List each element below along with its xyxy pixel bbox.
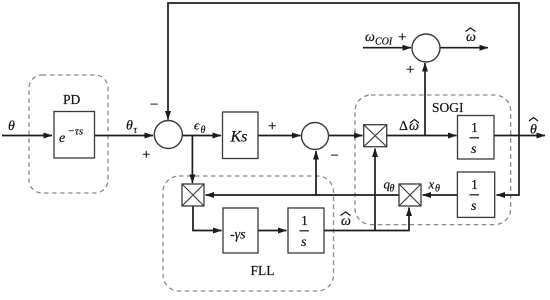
svg-text:-γs: -γs (230, 228, 246, 243)
svg-text:θ: θ (201, 125, 206, 136)
svg-text:COI: COI (375, 37, 393, 48)
svg-text:τ: τ (134, 125, 138, 136)
svg-text:PD: PD (63, 92, 81, 107)
svg-text:θ: θ (8, 119, 15, 134)
svg-text:s: s (471, 142, 477, 157)
svg-text:x: x (428, 177, 435, 192)
svg-text:−: − (150, 97, 158, 113)
svg-text:ω: ω (365, 30, 375, 45)
svg-text:−: − (331, 148, 339, 164)
svg-text:1: 1 (471, 178, 478, 193)
svg-text:FLL: FLL (251, 263, 275, 278)
svg-text:e: e (59, 131, 65, 146)
svg-text:+: + (142, 147, 150, 163)
svg-text:s: s (471, 199, 477, 214)
svg-text:Ks: Ks (230, 129, 248, 146)
svg-text:ω: ω (341, 214, 351, 229)
svg-text:−τs: −τs (68, 126, 84, 138)
svg-text:+: + (406, 62, 414, 78)
svg-text:θ: θ (435, 184, 440, 195)
svg-text:θ: θ (126, 119, 133, 134)
svg-text:+: + (398, 30, 406, 46)
svg-text:θ: θ (390, 184, 395, 195)
svg-text:Δ: Δ (399, 119, 408, 134)
svg-text:1: 1 (301, 214, 308, 229)
svg-text:θ: θ (530, 123, 537, 138)
svg-text:ω: ω (466, 30, 476, 45)
svg-text:SOGI: SOGI (432, 100, 464, 115)
svg-text:ϵ: ϵ (194, 118, 200, 133)
svg-text:+: + (268, 119, 276, 135)
svg-text:s: s (301, 235, 307, 250)
svg-text:1: 1 (471, 121, 478, 136)
